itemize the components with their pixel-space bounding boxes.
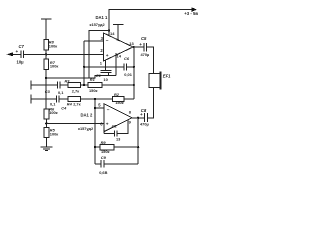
pin 1 stub: [105, 60, 107, 70]
wire B2 left: [95, 163, 101, 165]
capacitor C7: [21, 50, 24, 58]
resistor R7: [44, 59, 49, 70]
wire supply sub line: [46, 76, 116, 78]
capacitor C2: [114, 131, 116, 137]
ground bar C4: [30, 95, 32, 104]
wire output2 vertical: [137, 118, 139, 164]
pin 3 wire: [84, 40, 103, 42]
node output DA1.2: [137, 117, 139, 119]
svg-text:0,1: 0,1: [58, 90, 64, 95]
resistor R1: [88, 83, 102, 88]
svg-text:100к: 100к: [49, 44, 57, 49]
wire C4 to R4: [59, 98, 68, 100]
earphone EF1: [149, 74, 160, 88]
wire pin5 lead: [95, 107, 104, 109]
node pin6 bias: [45, 122, 47, 124]
capacitor C5: [144, 43, 147, 52]
svg-text:14: 14: [110, 31, 115, 36]
wire C5 to EF1: [147, 47, 154, 74]
node pin5 net top: [94, 98, 96, 100]
svg-text:+3 - 5в: +3 - 5в: [184, 11, 198, 16]
svg-text:R9: R9: [101, 140, 107, 145]
svg-text:10µ: 10µ: [17, 60, 25, 65]
svg-text:C9: C9: [101, 155, 107, 160]
svg-text:150к: 150к: [101, 149, 109, 154]
svg-text:470µ: 470µ: [140, 121, 149, 126]
wire R7 bottom to bias node: [45, 70, 47, 78]
svg-text:100к: 100к: [50, 64, 58, 69]
svg-text:100к: 100к: [50, 132, 58, 137]
capacitor C6: [124, 63, 127, 70]
node pin3 fb: [83, 84, 85, 86]
node R9 left: [94, 146, 96, 148]
svg-text:R2: R2: [114, 92, 120, 97]
node R9 right: [137, 146, 139, 148]
svg-text:+: +: [106, 54, 109, 59]
wire B1 right: [114, 146, 138, 148]
wire R1 to output: [102, 84, 134, 86]
wire input lead: [13, 53, 21, 55]
svg-text:0,6В: 0,6В: [99, 170, 107, 175]
wire R5 to ground: [45, 138, 47, 147]
svg-text:к157уд2: к157уд2: [90, 22, 106, 27]
op-amp U2 DA1.2: [104, 104, 132, 132]
svg-text:R4: R4: [67, 102, 73, 107]
node output DA1.1: [133, 46, 135, 48]
svg-text:+: +: [139, 42, 142, 47]
resistor R2: [113, 97, 125, 102]
wire output to C5: [133, 46, 144, 48]
svg-text:+: +: [106, 122, 109, 127]
node fb output top: [133, 66, 135, 68]
svg-text:+: +: [140, 112, 143, 117]
svg-text:10: 10: [103, 77, 108, 82]
svg-text:−: −: [106, 39, 109, 44]
wire correction line pin1 C6: [84, 66, 134, 68]
wire R8 to input node: [45, 50, 47, 55]
node pin5: [94, 107, 96, 109]
resistor R8: [44, 40, 49, 50]
capacitor C4: [57, 95, 60, 102]
capacitor C8: [145, 113, 148, 122]
svg-text:C1: C1: [96, 73, 102, 78]
capacitor C3: [57, 82, 59, 89]
input arrow: [7, 52, 14, 56]
wire pin6 lead: [46, 122, 104, 124]
svg-text:C3: C3: [45, 89, 51, 94]
wire L2 left: [31, 98, 56, 100]
wire feedback vertical pin3: [83, 41, 85, 85]
wire R7 top lead: [45, 54, 47, 59]
svg-text:0,01: 0,01: [124, 72, 132, 77]
ground bar pin4: [113, 24, 124, 40]
wire output2: [132, 117, 138, 119]
svg-text:к157уд2: к157уд2: [78, 126, 94, 131]
svg-text:+: +: [16, 49, 19, 54]
svg-text:R3: R3: [65, 78, 71, 83]
wire B2 right: [104, 163, 138, 165]
svg-text:C2: C2: [112, 123, 118, 128]
svg-text:0,1: 0,1: [50, 102, 56, 107]
svg-text:DA1 2: DA1 2: [81, 113, 94, 118]
svg-text:150к: 150к: [115, 100, 123, 105]
node fb R1: [133, 84, 135, 86]
resistor R4: [68, 97, 81, 102]
svg-text:DA1 1: DA1 1: [96, 15, 109, 20]
node bias mid: [45, 77, 47, 79]
resistor R6: [44, 109, 49, 119]
ground bar C3: [30, 81, 32, 90]
svg-text:−: −: [107, 108, 110, 113]
wire L1 left: [31, 84, 57, 86]
wire R3 to node: [81, 84, 89, 86]
svg-text:13: 13: [129, 41, 134, 46]
svg-text:C7: C7: [19, 44, 25, 49]
wire top supply rail: [109, 10, 196, 36]
wire C2 branch: [104, 133, 114, 135]
ground: [40, 147, 52, 151]
svg-text:C6: C6: [124, 56, 130, 61]
resistor R5: [44, 127, 49, 137]
capacitor C9: [101, 160, 104, 168]
wire C1 bottom stub: [108, 72, 110, 75]
wire C2 to pin9: [117, 120, 128, 134]
pin 11 stub: [115, 53, 117, 76]
svg-text:2,7к: 2,7к: [73, 102, 80, 107]
wire C8 to output2: [138, 117, 144, 119]
node input bias: [45, 53, 47, 55]
node supply junction: [108, 29, 110, 31]
resistor R9: [100, 145, 114, 150]
capacitor C1: [101, 70, 112, 72]
pin 7 stub: [103, 132, 105, 134]
svg-text:470µ: 470µ: [141, 52, 150, 57]
svg-text:2,7к: 2,7к: [72, 89, 79, 94]
svg-text:14: 14: [117, 54, 122, 59]
wire input line to op-amp pin2: [24, 53, 104, 55]
power arrow +3-5V: [192, 7, 198, 12]
wire C3 to R3: [60, 84, 68, 86]
wire pin5 net vertical: [94, 99, 96, 164]
wire supply branch left: [89, 30, 109, 78]
resistor R3: [68, 83, 81, 88]
wire R4 to R2 line: [81, 98, 113, 100]
op-amp U1 DA1.1: [104, 33, 134, 61]
wire B1 left: [95, 146, 100, 148]
wire output1 feedback vertical: [133, 47, 135, 99]
wire bias column through L1 L2: [45, 78, 47, 109]
svg-text:EF1: EF1: [163, 73, 171, 78]
svg-text:R1: R1: [90, 77, 95, 82]
wire pin14 supply: [108, 30, 110, 35]
svg-text:100к: 100к: [49, 110, 57, 115]
ground bar top left: [41, 19, 52, 40]
wire R6 to R5: [45, 119, 47, 128]
wire R2 right lead: [124, 98, 134, 100]
svg-text:C5: C5: [141, 36, 147, 41]
svg-text:150к: 150к: [89, 88, 97, 93]
wire EF1 to C8: [148, 88, 154, 118]
node fb upper: [83, 66, 85, 68]
